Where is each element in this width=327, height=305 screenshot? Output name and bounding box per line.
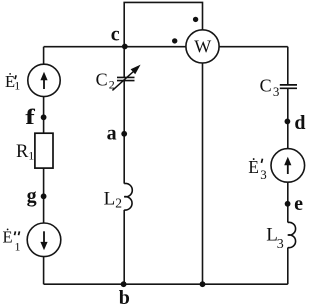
svg-text:3: 3 (273, 84, 280, 99)
svg-text:3: 3 (260, 167, 267, 182)
source E1'' circle (27, 223, 61, 257)
svg-text:a: a (107, 123, 117, 145)
capacitor C3 plates (280, 85, 297, 88)
node d dot (285, 119, 291, 125)
wire top rectangle loop from node c up and over to wattmeter (124, 2, 202, 46)
junction dot at wattmeter drop on bottom bus (200, 281, 206, 287)
svg-text:R: R (16, 142, 29, 162)
label E1'' double prime (15, 231, 20, 235)
wire wattmeter drop to bottom bus (202, 63, 204, 285)
node e dot (285, 201, 291, 207)
node a dot (121, 131, 127, 137)
label E3' prime (261, 159, 262, 163)
wire left branch vertical x=43.6 (43, 47, 45, 285)
wire right branch C3 bottom plate to L3 top (287, 88, 289, 222)
svg-text:C: C (96, 69, 108, 89)
wire bottom bus y=284.2 (44, 283, 288, 285)
wire top bus y=46.7 from left branch to right branch (44, 46, 288, 48)
svg-text:L: L (104, 189, 116, 210)
wire right branch L3 bottom to bottom bus (287, 248, 289, 285)
svg-text:1: 1 (14, 79, 20, 93)
inductor L2 (124, 183, 132, 210)
wire middle branch L2 bottom to bottom bus (123, 210, 125, 284)
svg-text:Ė: Ė (248, 157, 259, 177)
node c dot (122, 44, 128, 50)
svg-text:g: g (27, 185, 37, 207)
node f dot (41, 114, 47, 120)
svg-text:b: b (119, 287, 130, 305)
source E1' arrow (40, 72, 47, 89)
resistor R1 (35, 133, 53, 168)
svg-text:1: 1 (15, 240, 21, 254)
svg-text:W: W (194, 36, 211, 56)
svg-text:e: e (294, 193, 303, 215)
inductor L3 (288, 222, 296, 247)
source E1' circle (28, 64, 60, 96)
node g dot (41, 193, 47, 199)
wattmeter polarity dot left (172, 38, 177, 43)
svg-text:c: c (111, 23, 120, 45)
wattmeter W circle (186, 30, 219, 63)
node b dot (121, 281, 127, 287)
wire middle branch C2 bottom plate to L2 top (123, 81, 125, 184)
svg-text:1: 1 (28, 149, 34, 163)
capacitor C2 variable arrow (112, 65, 140, 91)
wattmeter polarity dot upper (193, 17, 198, 22)
source E3' circle (271, 149, 305, 183)
svg-text:2: 2 (115, 196, 122, 211)
svg-text:d: d (294, 112, 305, 134)
svg-text:f: f (25, 104, 35, 129)
source E1'' arrow (40, 231, 47, 250)
svg-text:2: 2 (109, 77, 115, 91)
source E3' arrow (284, 157, 291, 174)
capacitor C2 (variable) plates (117, 77, 135, 80)
svg-text:3: 3 (277, 237, 284, 252)
wire right branch top corner to C3 top plate (287, 47, 289, 85)
svg-text:C: C (260, 75, 272, 95)
wire middle branch upper segment node c to C2 top plate (123, 47, 125, 78)
label E1' prime (15, 75, 16, 79)
svg-text:Ė: Ė (3, 227, 13, 246)
